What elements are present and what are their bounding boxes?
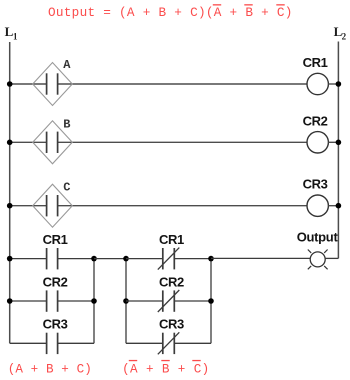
wire coil CR3 to L2 [328, 205, 338, 207]
wire rung 3 right segment [58, 205, 307, 207]
junction L1-rung3 [7, 203, 13, 209]
junction L1 row2 [7, 298, 13, 304]
svg-text:CR2: CR2 [159, 274, 184, 289]
contact CR3 NC [158, 332, 180, 354]
wire rung 4 row2 to group1 bus [58, 300, 94, 302]
svg-text:Output: Output [297, 230, 339, 245]
contact A (diamond enclosure) [33, 63, 73, 106]
svg-text:A: A [63, 58, 71, 72]
wire group2 row2 to right bus [174, 300, 211, 302]
svg-text:CR1: CR1 [43, 232, 68, 247]
wire group2 row1 to right bus [174, 258, 211, 260]
wire lamp to L2 [325, 257, 338, 259]
node L2 label [334, 24, 347, 42]
junction L2-rung3 [336, 203, 342, 209]
svg-text:CR1: CR1 [159, 232, 184, 247]
svg-text:(A + B + C): (A + B + C) [8, 363, 92, 377]
wire rung 3 left segment [10, 205, 47, 207]
wire coil CR1 to L2 [328, 83, 338, 85]
contact B (diamond enclosure) [33, 121, 73, 164]
wire rung 2 right segment [58, 141, 307, 143]
wire group2 row2 lead [126, 300, 163, 302]
wire group2 left bus [125, 259, 127, 344]
wire group2 row3 lead [126, 342, 163, 344]
wire rung 1 left segment [10, 83, 47, 85]
contact CR3 NO [47, 333, 58, 354]
svg-text:(A + B + C): (A + B + C) [122, 363, 210, 377]
wire rung 4 row1 lead from L1 [10, 258, 47, 260]
contact CR1 NO [47, 248, 58, 269]
contact CR2 NO [47, 290, 58, 311]
wire rung 4 row3 to group1 bus [58, 342, 94, 344]
wire coil CR2 to L2 [328, 141, 338, 143]
svg-text:2: 2 [342, 32, 347, 42]
svg-text:B: B [63, 117, 70, 131]
junction group2 left bus row1 [123, 256, 129, 262]
lamp Output [308, 250, 328, 270]
junction L1-rung2 [7, 140, 13, 146]
label sum term (A' + B' + C') [122, 360, 210, 377]
coil CR3 [307, 195, 328, 216]
wire rung 4 row2 lead from L1 [10, 300, 47, 302]
contact CR2 NC [158, 290, 180, 312]
svg-text:C: C [63, 180, 70, 194]
wire group2 row3 to right bus [174, 342, 211, 344]
junction L2-rung1 [336, 81, 342, 87]
node L1 label [5, 24, 18, 42]
svg-text:CR3: CR3 [303, 177, 328, 192]
wire group2 right bus [210, 259, 212, 344]
junction group2 right bus row1 [208, 256, 214, 262]
wire rung 1 right segment [58, 83, 307, 85]
svg-text:1: 1 [13, 32, 18, 42]
wire L2 power rail [337, 42, 339, 259]
contact C (diamond enclosure) [33, 184, 73, 227]
svg-text:Output = (A + B + C)(A + B + C: Output = (A + B + C)(A + B + C) [48, 5, 293, 20]
wire rung 4 row3 lead from L1 [10, 342, 47, 344]
svg-text:CR1: CR1 [303, 55, 328, 70]
wire rung 4 to lamp [211, 257, 310, 259]
svg-text:CR3: CR3 [43, 317, 68, 332]
junction group2 left bus row2 [123, 298, 129, 304]
junction L2-rung2 [336, 140, 342, 146]
svg-text:CR3: CR3 [159, 317, 184, 332]
junction L1 row1 [7, 256, 13, 262]
junction group2 right bus row2 [208, 298, 214, 304]
junction group1 bus row1 [91, 256, 97, 262]
junction L1-rung1 [7, 81, 13, 87]
wire rung 4 row1 to group1 bus [58, 258, 94, 260]
wire L1 power rail [9, 42, 11, 343]
coil CR1 [307, 73, 328, 94]
wire rung 2 left segment [10, 141, 47, 143]
wire series link group1-group2 [94, 258, 126, 260]
coil CR2 [307, 132, 328, 153]
boolean expression title [48, 4, 293, 20]
contact CR1 NC [158, 248, 180, 270]
junction group1 bus row2 [91, 298, 97, 304]
svg-text:CR2: CR2 [303, 113, 328, 128]
wire group1 right bus [93, 259, 95, 344]
wire group2 row1 lead [126, 258, 163, 260]
svg-text:CR2: CR2 [43, 274, 68, 289]
